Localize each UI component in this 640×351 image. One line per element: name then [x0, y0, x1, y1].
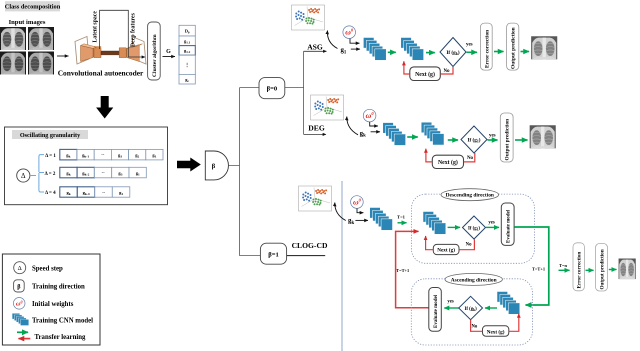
- DEG scatter image: [311, 95, 344, 120]
- asc red feedback wires: [471, 320, 483, 331]
- Cluster algorithm box: [148, 22, 161, 80]
- ASG error correction box: [480, 23, 492, 70]
- svg-text:Δ = 1: Δ = 1: [45, 154, 56, 159]
- big black down arrow: [96, 96, 113, 119]
- svg-text:Δ: Δ: [18, 265, 22, 272]
- svg-text:Output prediction: Output prediction: [511, 27, 517, 69]
- ASG cnn stack 2: [401, 38, 424, 61]
- svg-text:Ascending direction: Ascending direction: [451, 277, 497, 283]
- svg-text:Class decomposition: Class decomposition: [5, 4, 61, 11]
- green arrow: [586, 269, 594, 271]
- svg-text:Training CNN model: Training CNN model: [32, 318, 93, 325]
- svg-text:yes: yes: [447, 300, 454, 305]
- svg-text:Input images: Input images: [9, 19, 46, 26]
- asc If diamond: [459, 296, 483, 319]
- green arrow: [521, 51, 530, 53]
- green arrow: [515, 139, 528, 141]
- ASG output X-ray: [531, 36, 557, 59]
- svg-text:Next (g): Next (g): [437, 247, 455, 254]
- legend transfer learning arrows: [17, 331, 28, 333]
- legend box: [2, 254, 100, 345]
- svg-text:Descending direction: Descending direction: [446, 193, 494, 199]
- svg-text:No: No: [467, 156, 474, 161]
- svg-text:Δ = 2: Δ = 2: [45, 172, 56, 177]
- svg-text:Evaluate model: Evaluate model: [507, 209, 512, 243]
- svg-text:yes: yes: [488, 221, 495, 226]
- CLOG w0 wire: [357, 208, 363, 212]
- speed step circle: [17, 169, 30, 182]
- svg-text:Output prediction: Output prediction: [505, 119, 511, 161]
- ASG red feedback wires: [441, 67, 453, 74]
- DEG If diamond: [461, 126, 487, 153]
- asc Next(g) box: [483, 326, 509, 337]
- legend cnn stack: [12, 313, 29, 325]
- CLOG error correction box: [573, 243, 584, 291]
- svg-text:T=T+1: T=T+1: [396, 268, 409, 273]
- arrow to DEG: [304, 133, 326, 135]
- arrow to ASG: [304, 50, 327, 52]
- CLOG cnn stack 1: [370, 208, 393, 231]
- input X-ray 4: [28, 52, 54, 75]
- ASG scatter image: [292, 5, 325, 30]
- input X-ray 1: [0, 27, 26, 50]
- ASG cnn stack 1: [363, 38, 386, 61]
- svg-text:Evaluate model: Evaluate model: [434, 294, 439, 328]
- svg-text:Error correction: Error correction: [577, 252, 583, 289]
- svg-text:T=1: T=1: [397, 214, 406, 219]
- svg-text:β=1: β=1: [268, 251, 279, 258]
- DEG curved arrow to scatter: [347, 117, 358, 135]
- svg-text:No: No: [471, 325, 477, 330]
- beta=1 box: [260, 243, 286, 264]
- green transfer wire down (descending to ascending): [514, 227, 549, 305]
- CLOG curved arrow to scatter: [335, 203, 346, 221]
- Ascending direction dashed box: [411, 279, 532, 345]
- T=1 green arrow: [398, 222, 407, 224]
- svg-text:Error correction: Error correction: [484, 30, 490, 68]
- convolutional autoencoder drawing: [75, 37, 146, 65]
- input X-ray 2: [28, 27, 54, 50]
- Oscillating granularity outer box: [5, 127, 168, 205]
- svg-text:If (g1): If (g1): [467, 137, 480, 144]
- svg-text:CLOG-CD: CLOG-CD: [292, 241, 328, 250]
- asc Evaluate model box: [429, 288, 442, 332]
- latent bar: [101, 51, 119, 55]
- svg-text:If (g1): If (g1): [468, 226, 480, 231]
- svg-text:Cluster algorithm: Cluster algorithm: [152, 34, 158, 77]
- input X-ray 3: [0, 52, 26, 75]
- right white plane: [132, 37, 146, 65]
- granularity cells column: [179, 25, 195, 84]
- svg-text:If (gk): If (gk): [464, 307, 477, 312]
- svg-text:Transfer learning: Transfer learning: [35, 334, 87, 341]
- svg-text:No: No: [466, 242, 472, 247]
- ASG output prediction box: [507, 23, 519, 70]
- latent/deep features bracket wire: [100, 10, 145, 57]
- ASG initial weights w0: [343, 26, 356, 39]
- Descending direction oval: [441, 189, 499, 201]
- wire beta to branch: [229, 88, 260, 256]
- svg-text:yes: yes: [466, 43, 473, 48]
- arrow images to autoencoder: [57, 55, 69, 57]
- svg-text:--: --: [102, 189, 106, 194]
- green arrow: [388, 51, 396, 53]
- DEG w0 wire: [370, 122, 378, 126]
- green arrow: [467, 51, 478, 53]
- CLOG scatter image: [299, 186, 332, 211]
- ASG If diamond: [440, 38, 466, 67]
- asc cnn stack: [497, 292, 520, 315]
- svg-text:Oscillating granularity: Oscillating granularity: [20, 132, 81, 139]
- green arrow diamond to evaluate: [444, 307, 459, 309]
- desc Evaluate model box: [501, 203, 514, 245]
- green arrow stack to diamond: [485, 307, 497, 309]
- beta=0 box: [259, 78, 285, 99]
- svg-text:--: --: [102, 170, 106, 175]
- CLOG output prediction box: [596, 244, 608, 292]
- svg-text:Training direction: Training direction: [32, 284, 85, 291]
- desc Next(g) box: [433, 244, 459, 254]
- svg-text:⋮: ⋮: [184, 62, 190, 69]
- green arrow to error correction: [559, 269, 570, 271]
- svg-text:Next (g): Next (g): [487, 328, 505, 335]
- right small block: [119, 48, 126, 58]
- svg-text:Output prediction: Output prediction: [600, 249, 606, 289]
- svg-text:T=T+1: T=T+1: [532, 266, 545, 271]
- ASG w0 wire: [350, 39, 360, 44]
- CLOG arrow gk to cnn: [355, 219, 368, 221]
- DEG cnn stack 2: [421, 122, 444, 145]
- svg-text:If (gk): If (gk): [446, 49, 460, 56]
- G arrow: [163, 56, 176, 58]
- svg-text:Latent space: Latent space: [93, 11, 99, 43]
- green arrow: [488, 139, 498, 141]
- green arrow: [494, 51, 504, 53]
- CLOG output X-ray: [619, 259, 636, 280]
- DEG Next(g) box: [432, 155, 463, 168]
- left encoder trapezoid: [81, 44, 97, 49]
- legend initial weights: [13, 298, 25, 310]
- green arrow: [448, 226, 460, 228]
- left small block: [94, 46, 101, 48]
- wire beta1: [287, 255, 326, 257]
- desc red feedback wires: [459, 239, 474, 250]
- red transfer wire up (ascending to descending): [396, 231, 429, 307]
- svg-text:DEG: DEG: [308, 124, 325, 133]
- desc If diamond: [463, 216, 486, 239]
- svg-text:Next (g): Next (g): [415, 71, 435, 78]
- svg-text:Deep features: Deep features: [131, 12, 137, 47]
- green arrow: [448, 139, 458, 141]
- svg-text:β=0: β=0: [267, 86, 278, 93]
- DEG output X-ray: [530, 125, 556, 148]
- DEG output prediction box: [500, 113, 513, 162]
- right decoder trapezoid: [127, 44, 143, 49]
- ASG arrow g1 to cnn: [351, 48, 360, 50]
- svg-text:ASG: ASG: [307, 43, 323, 52]
- svg-text:Next (g): Next (g): [438, 159, 458, 166]
- svg-text:Convolutional autoencoder: Convolutional autoencoder: [58, 69, 144, 78]
- blue bracket: [30, 155, 44, 192]
- Class decomposition label: [5, 1, 61, 11]
- green arrow: [407, 136, 418, 138]
- desc cnn stack: [423, 212, 446, 235]
- ASG curved arrow to scatter: [327, 31, 337, 49]
- svg-text:Initial weights: Initial weights: [32, 301, 74, 308]
- green arrow: [486, 226, 499, 228]
- svg-text:--: --: [101, 152, 105, 157]
- CLOG initial weights w0: [351, 196, 364, 209]
- DEG initial weights w0: [363, 109, 376, 122]
- svg-text:No: No: [443, 69, 450, 74]
- svg-text:G: G: [166, 49, 171, 55]
- wire beta0 split: [285, 51, 304, 134]
- svg-text:Δ: Δ: [21, 172, 26, 180]
- svg-text:yes: yes: [489, 134, 496, 139]
- Ascending direction oval: [445, 273, 502, 285]
- DEG cnn stack 1: [383, 123, 406, 146]
- green arrow: [609, 269, 617, 271]
- long vertical separator line: [341, 181, 343, 351]
- beta D-shape: [205, 151, 228, 180]
- Oscillating granularity label: [12, 130, 88, 139]
- svg-text:T=n: T=n: [559, 263, 567, 268]
- big black right arrow: [177, 158, 201, 172]
- svg-text:Speed step: Speed step: [32, 265, 63, 272]
- Descending direction dashed box: [412, 194, 535, 263]
- green arrow: [426, 52, 435, 54]
- svg-text:Δ = 4: Δ = 4: [45, 191, 56, 196]
- left white plane: [75, 37, 89, 65]
- ASG Next(g) box: [410, 67, 441, 81]
- svg-text:β: β: [212, 163, 216, 170]
- legend training direction shape: [14, 280, 25, 292]
- legend speed step circle: [14, 262, 26, 274]
- DEG arrow gk to cnn: [371, 131, 380, 133]
- DEG red feedback wires: [464, 153, 475, 162]
